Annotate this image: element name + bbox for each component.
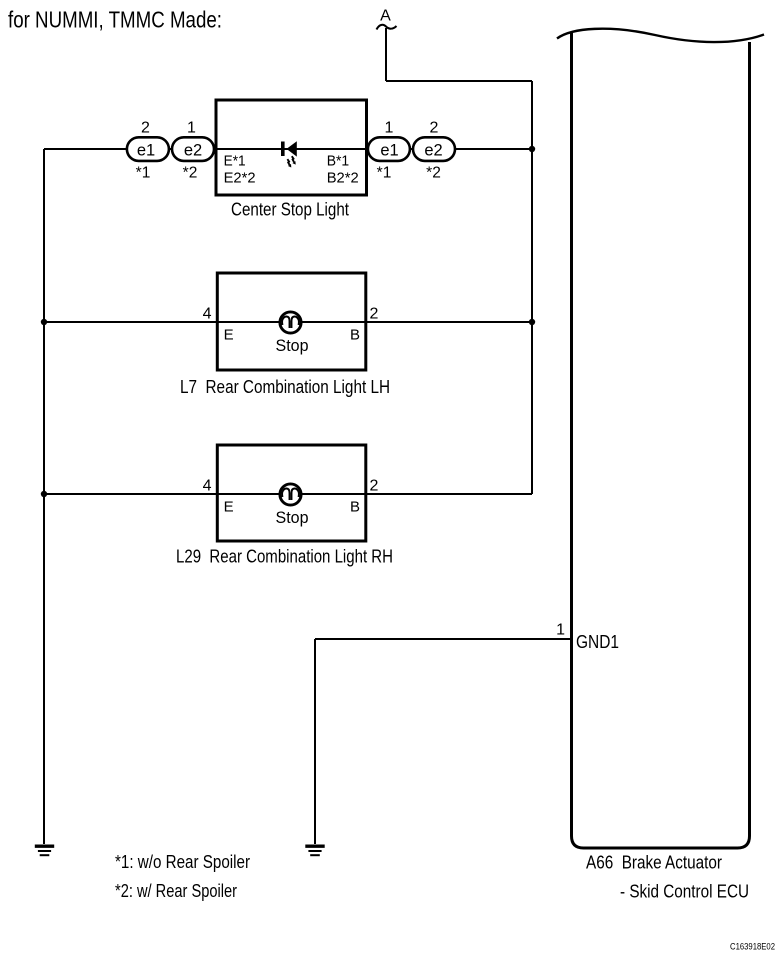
- svg-text:2: 2: [141, 119, 150, 136]
- svg-text:E: E: [224, 499, 234, 516]
- svg-text:*2: w/ Rear Spoiler: *2: w/ Rear Spoiler: [115, 881, 237, 901]
- svg-text:*2: *2: [183, 165, 198, 182]
- svg-text:C163918E02: C163918E02: [730, 942, 775, 952]
- svg-text:Center Stop Light: Center Stop Light: [231, 200, 349, 220]
- svg-text:4: 4: [203, 477, 212, 494]
- svg-text:- Skid Control ECU: - Skid Control ECU: [620, 882, 749, 902]
- svg-text:B*1: B*1: [327, 152, 350, 169]
- svg-text:4: 4: [203, 305, 212, 322]
- svg-text:for NUMMI, TMMC Made:: for NUMMI, TMMC Made:: [8, 7, 222, 33]
- svg-text:Stop: Stop: [276, 337, 309, 355]
- svg-text:e2: e2: [184, 141, 202, 159]
- svg-text:GND1: GND1: [576, 632, 619, 652]
- svg-text:*1: w/o Rear Spoiler: *1: w/o Rear Spoiler: [115, 852, 250, 872]
- svg-text:1: 1: [187, 119, 196, 136]
- svg-text:2: 2: [370, 305, 379, 322]
- svg-text:2: 2: [370, 477, 379, 494]
- svg-text:*1: *1: [136, 165, 151, 182]
- svg-text:B: B: [350, 327, 360, 344]
- svg-text:1: 1: [556, 622, 565, 639]
- svg-text:*2: *2: [426, 165, 441, 182]
- svg-text:B: B: [350, 499, 360, 516]
- svg-text:L7 Rear Combination Light LH: L7 Rear Combination Light LH: [180, 377, 390, 397]
- svg-text:1: 1: [385, 119, 394, 136]
- svg-text:L29 Rear Combination Light RH: L29 Rear Combination Light RH: [176, 547, 393, 567]
- svg-text:Stop: Stop: [276, 509, 309, 527]
- svg-text:*1: *1: [377, 165, 392, 182]
- svg-text:e2: e2: [424, 141, 442, 159]
- svg-text:A66 Brake Actuator: A66 Brake Actuator: [586, 853, 722, 873]
- svg-text:2: 2: [430, 119, 439, 136]
- svg-text:B2*2: B2*2: [327, 169, 359, 186]
- svg-text:A: A: [380, 7, 391, 24]
- svg-text:E2*2: E2*2: [224, 169, 256, 186]
- svg-text:E*1: E*1: [224, 152, 246, 169]
- svg-text:e1: e1: [380, 141, 398, 159]
- svg-text:E: E: [224, 327, 234, 344]
- svg-text:e1: e1: [137, 141, 155, 159]
